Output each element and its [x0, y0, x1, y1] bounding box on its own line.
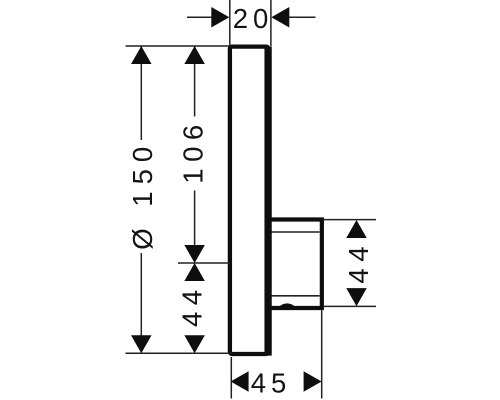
svg-text:44: 44: [177, 283, 208, 327]
svg-text:106: 106: [177, 118, 208, 183]
svg-text:44: 44: [343, 240, 374, 284]
svg-text:Ø 150: Ø 150: [127, 140, 158, 250]
svg-text:45: 45: [251, 367, 292, 398]
svg-text:20: 20: [233, 3, 274, 34]
